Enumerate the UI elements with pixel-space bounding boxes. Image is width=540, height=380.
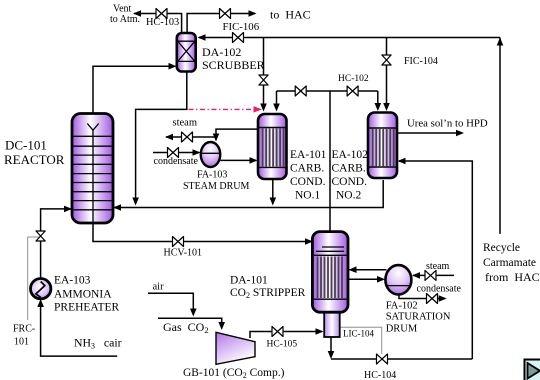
svg-text:FRC-: FRC- bbox=[13, 324, 35, 335]
svg-text:DRUM: DRUM bbox=[386, 324, 418, 335]
svg-text:HCV-101: HCV-101 bbox=[164, 248, 203, 259]
FRC-101 signal line bbox=[28, 237, 41, 320]
arrow up into preheater bottom bbox=[37, 299, 44, 307]
wire gas CO2 line bbox=[158, 318, 222, 327]
svg-text:EA-103: EA-103 bbox=[54, 275, 91, 287]
svg-text:COND.: COND. bbox=[290, 176, 326, 188]
wire stripper to saturation drum bbox=[348, 278, 384, 280]
svg-text:FA-102: FA-102 bbox=[386, 300, 418, 311]
wire recycle header to scrubber (FIC-106 line) bbox=[199, 37, 500, 39]
arrow steam into drum (left) bbox=[412, 272, 420, 279]
arrow into stripper left (right) bbox=[305, 238, 313, 245]
arrow urea to HPD (right) bbox=[456, 130, 464, 137]
svg-text:HC-103: HC-103 bbox=[146, 17, 179, 28]
svg-text:from HAC: from HAC bbox=[485, 270, 540, 284]
valve HC-105 bbox=[272, 327, 283, 337]
wire header right end into EA-102 top bbox=[377, 91, 379, 109]
arrow down into EA-102 top from FIC-104 bbox=[383, 103, 390, 111]
wire scrubber top to HAC bbox=[187, 14, 255, 33]
svg-text:SATURATION: SATURATION bbox=[386, 312, 451, 323]
svg-text:DA-102: DA-102 bbox=[202, 45, 241, 59]
arrow into scrubber left (right) bbox=[169, 63, 177, 70]
wire HC-104 horizontal line bbox=[331, 358, 472, 360]
valve above EA-101 (vertical) bbox=[259, 75, 268, 85]
wire scrubber bottom to carbamate header bbox=[136, 72, 187, 203]
wire recycle carbamate riser bbox=[499, 38, 501, 234]
arrow into EA-102 right (left) bbox=[398, 158, 406, 165]
carbamate condenser EA-102 bbox=[368, 113, 397, 179]
arrow steam out (left) bbox=[165, 134, 173, 141]
svg-text:EA-102: EA-102 bbox=[332, 149, 369, 161]
arrow condensate out (right) bbox=[439, 295, 447, 302]
arrow drum outlet into EA-101 (right) bbox=[250, 157, 258, 164]
svg-text:DC-101: DC-101 bbox=[5, 138, 47, 153]
reactor DC-101 bbox=[72, 114, 113, 224]
svg-text:COND.: COND. bbox=[332, 176, 368, 188]
valve HC-104 bbox=[377, 354, 388, 364]
svg-text:CARB.: CARB. bbox=[332, 163, 366, 175]
svg-text:AMMONIA: AMMONIA bbox=[54, 289, 112, 301]
carbamate condenser EA-101 bbox=[258, 114, 287, 179]
svg-text:HC-105: HC-105 bbox=[267, 340, 298, 350]
arrow down boot outlet bbox=[328, 351, 335, 359]
wire header left end into EA-101 top bbox=[276, 91, 278, 110]
arrow to HAC (right) bbox=[249, 10, 257, 17]
svg-text:LIC-104: LIC-104 bbox=[343, 329, 374, 339]
wire reactor top to scrubber bbox=[93, 66, 175, 113]
arrow condensate into drum (right) bbox=[193, 149, 201, 156]
arrow down into EA-101 top left branch bbox=[260, 104, 267, 112]
valve on to-HAC line bbox=[220, 9, 231, 19]
wire vent line from scrubber top to atm bbox=[134, 14, 182, 33]
svg-text:DA-101: DA-101 bbox=[230, 275, 268, 287]
wire HC-104 riser to EA-102 right inlet bbox=[399, 161, 472, 359]
wire NH3 feed to reactor left bbox=[41, 209, 71, 231]
saturation drum FA-102 bbox=[385, 265, 411, 294]
svg-text:NO.2: NO.2 bbox=[336, 190, 361, 202]
svg-text:steam: steam bbox=[426, 261, 450, 272]
arrow vent to atm (left) bbox=[133, 10, 141, 17]
arrow into reactor left (right) bbox=[64, 206, 72, 213]
arrow down EA-101 outlet bbox=[270, 198, 277, 206]
valve HC-102 bbox=[347, 86, 358, 96]
wire air line bbox=[148, 293, 193, 314]
valve FIC-104 (vertical) bbox=[382, 55, 391, 65]
svg-text:CARB.: CARB. bbox=[290, 163, 324, 175]
svg-text:PREHEATER: PREHEATER bbox=[54, 302, 120, 314]
svg-text:REACTOR: REACTOR bbox=[4, 152, 65, 167]
arrow down into EA-101 top right branch bbox=[273, 104, 280, 112]
svg-text:CO2 STRIPPER: CO2 STRIPPER bbox=[230, 287, 306, 300]
svg-text:GB-101 (CO2 Comp.): GB-101 (CO2 Comp.) bbox=[183, 367, 285, 380]
wire condensate from saturation drum bbox=[399, 293, 445, 299]
valve condensate FA-102 bbox=[427, 294, 438, 304]
stripper boot bbox=[324, 311, 340, 337]
svg-text:air: air bbox=[153, 282, 165, 293]
svg-text:HC-102: HC-102 bbox=[338, 74, 369, 84]
svg-text:FIC-106: FIC-106 bbox=[223, 21, 260, 33]
wire steam out of drum line bbox=[166, 136, 216, 138]
arrow into stripper right (left) bbox=[349, 266, 357, 273]
CO2 compressor GB-101 bbox=[216, 332, 255, 364]
svg-text:NO.1: NO.1 bbox=[295, 190, 320, 202]
wire reactor bottom via HCV-101 to stripper bbox=[93, 223, 311, 242]
svg-text:STEAM DRUM: STEAM DRUM bbox=[183, 181, 250, 192]
scrubber DA-102 bbox=[177, 33, 196, 72]
arrow down air line bbox=[190, 309, 197, 317]
wire drum outlet to EA-101 bbox=[220, 159, 256, 161]
stripper DA-101 bbox=[312, 232, 348, 313]
wire compressor outlet to stripper boot bbox=[250, 332, 322, 339]
valve on header to EA-101 bbox=[295, 86, 306, 96]
svg-text:101: 101 bbox=[14, 337, 29, 348]
play button bbox=[525, 360, 540, 380]
arrow down into EA-102 top right branch bbox=[375, 103, 382, 111]
svg-text:HC-104: HC-104 bbox=[364, 370, 396, 380]
svg-text:NH3 cair: NH3 cair bbox=[74, 336, 122, 351]
valve HC-103 bbox=[156, 9, 167, 19]
wire saturation drum to stripper bbox=[350, 269, 387, 271]
arrow into scrubber right (left) bbox=[198, 34, 206, 41]
arrow down gas CO2 into compressor bbox=[218, 322, 225, 330]
svg-text:to Atm.: to Atm. bbox=[110, 14, 140, 25]
LIC-104 signal line bbox=[340, 327, 382, 354]
arrow into boot left (right) bbox=[316, 328, 324, 335]
svg-text:condensate: condensate bbox=[154, 156, 199, 167]
steam drum FA-103 bbox=[201, 142, 221, 167]
valve steam FA-103 bbox=[182, 132, 193, 142]
wire FIC-104 branch down to EA-102 bbox=[386, 38, 388, 110]
svg-text:Carmamate: Carmamate bbox=[483, 257, 536, 269]
svg-text:SCRUBBER: SCRUBBER bbox=[202, 58, 265, 72]
svg-text:Recycle: Recycle bbox=[483, 242, 520, 254]
valve condensate FA-103 bbox=[168, 148, 179, 158]
svg-text:FIC-104: FIC-104 bbox=[404, 56, 438, 67]
wire EA-101 bottom outlet bbox=[272, 179, 274, 203]
svg-text:Vent: Vent bbox=[113, 4, 132, 15]
arrow down scrubber outlet into header bbox=[132, 198, 139, 206]
valve FIC-106 bbox=[233, 33, 244, 43]
ammonia preheater EA-103 bbox=[31, 279, 51, 299]
arrow up recycle riser bbox=[497, 38, 504, 46]
valve FRC on NH3 line (vertical) bbox=[36, 231, 45, 241]
svg-text:Urea sol’n to HPD: Urea sol’n to HPD bbox=[407, 118, 488, 130]
valve HCV-101 bbox=[173, 237, 184, 247]
valve steam FA-102 bbox=[425, 270, 436, 280]
wire FRC valve to preheater bbox=[40, 241, 42, 278]
arrow into drum left (right) bbox=[377, 276, 385, 283]
svg-text:condensate: condensate bbox=[417, 284, 462, 295]
arrow into reactor right (left) bbox=[113, 204, 121, 211]
wire condensate into drum bbox=[153, 152, 199, 154]
wire steam into saturation drum bbox=[413, 274, 454, 276]
svg-text:EA-101: EA-101 bbox=[290, 149, 327, 161]
svg-text:to HAC: to HAC bbox=[270, 8, 311, 22]
arrow down into steam drum top bbox=[213, 134, 220, 142]
wire HC-102 header bbox=[277, 90, 378, 92]
svg-text:FA-103: FA-103 bbox=[197, 170, 227, 181]
pink control signal dash-dot arrow bbox=[189, 106, 263, 112]
wire carbamate header into reactor bbox=[115, 180, 384, 208]
wire stripper top to HC-102 header bbox=[329, 91, 331, 232]
wire urea solution to HPD bbox=[397, 132, 462, 134]
svg-text:steam: steam bbox=[173, 118, 198, 129]
wire stripper boot bottom to HC-104 line bbox=[330, 337, 332, 357]
wire branch down to EA-101 top bbox=[263, 38, 265, 110]
wire NH3 cair to preheater bbox=[41, 301, 118, 357]
svg-text:Gas CO2: Gas CO2 bbox=[163, 320, 209, 335]
wire EA-101 shell to steam drum top bbox=[216, 129, 258, 140]
